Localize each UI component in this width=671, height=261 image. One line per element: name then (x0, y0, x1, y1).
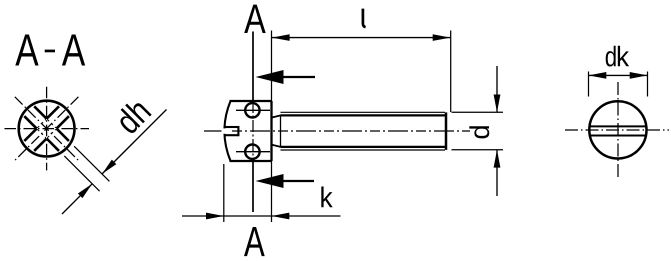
section view arrow bottom (256, 174, 315, 188)
title label A-A (15, 35, 85, 66)
thread runout bottom (272, 145, 281, 147)
section plane line A-A (252, 32, 254, 102)
slot (side view) (224, 126, 238, 136)
cross hole (upper) (245, 103, 259, 117)
hole centerline upper (236, 109, 270, 111)
head top edge (230, 100, 272, 102)
k dimension (bottom) (182, 164, 341, 222)
head outline circle (section) (19, 101, 75, 157)
dk dimension (589, 72, 648, 97)
dh dimension line lower segment with arrow (62, 184, 92, 214)
thread runout top (272, 115, 281, 117)
head outline circle (589, 101, 646, 158)
full thread boundary (280, 115, 282, 146)
dh extension line upper (74, 146, 109, 181)
centerline vertical (46, 87, 48, 171)
d dimension (452, 66, 504, 196)
shank outline top (281, 114, 447, 116)
section view arrow top (256, 70, 316, 84)
label l (363, 9, 366, 28)
shank end face (445, 112, 448, 149)
centerline horizontal (565, 129, 669, 131)
hole centerline lower (236, 151, 270, 153)
label A bottom (244, 227, 265, 256)
dh dimension line upper segment with arrow (102, 110, 166, 174)
centerline vertical (617, 82, 619, 177)
label dh (120, 103, 151, 133)
dh extension line lower (64, 156, 99, 191)
shank outline bottom (281, 146, 447, 148)
cross-hole edges (solid chevrons) (24, 106, 69, 151)
head crowned face arc (224, 101, 230, 161)
slot line upper (590, 125, 647, 127)
head right face (270, 101, 272, 161)
l dimension (272, 31, 451, 223)
screw axis centerline (204, 130, 470, 132)
label k (321, 187, 332, 208)
centerline horizontal (5, 128, 90, 130)
centerline diagonal NW-SE (15, 97, 79, 161)
label dk (606, 46, 629, 67)
hidden hole edges through centre (dashed) (37, 119, 55, 137)
label A top (244, 5, 266, 33)
thread crest line top (281, 111, 446, 113)
centerline diagonal NE-SW (15, 97, 79, 161)
cross hole (lower) (245, 145, 259, 159)
label d (rotated) (469, 126, 489, 138)
slot line lower (590, 135, 647, 137)
thread crest line bottom (281, 149, 446, 151)
head bottom edge (230, 160, 272, 162)
